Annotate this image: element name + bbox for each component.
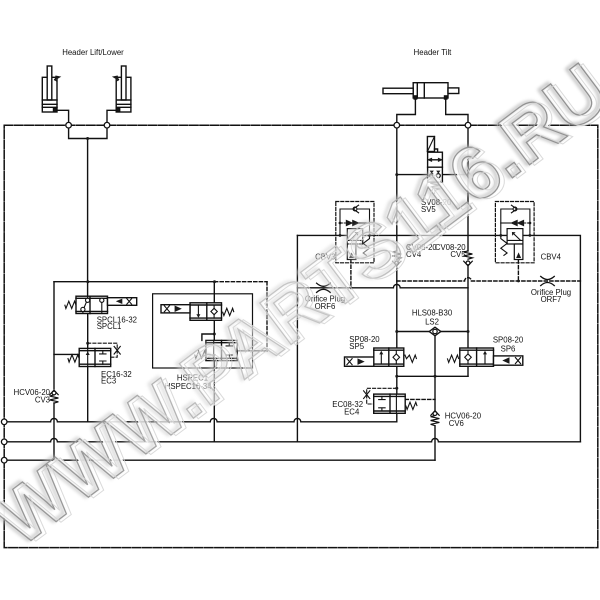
wire: CBV4 pilot line (dashed) with hop over B: [397, 278, 581, 281]
svg-text:EC4: EC4: [344, 407, 360, 416]
lift cylinder 2 (Header Lift/Lower right): [112, 66, 131, 112]
wire: branch at y=281.7 to CV3 column: [54, 281, 215, 283]
svg-text:ORF7: ORF7: [541, 295, 562, 304]
wire: SV5 left port: [397, 174, 428, 176]
wire: SPCL1 bottom to EC3 top: [87, 314, 89, 349]
wire: CBV3 pilot line (solid) with hop over A: [297, 284, 468, 287]
wire: SV5 right port: [442, 174, 468, 176]
node P1 (lift port): [66, 122, 72, 128]
wire: dashed pilot segment y=281.7: [215, 281, 268, 283]
wire: CV3 column down: [53, 282, 55, 389]
manifold block (right solid box): [297, 235, 580, 441]
pilot check SPCL1 (SPCL16-32): [65, 296, 137, 313]
counterbalance valve CBV3: [336, 202, 374, 263]
wire: CBV4 pilot drop (dashed): [517, 260, 519, 281]
wire: pilot branch into HSPEC1: [213, 282, 215, 303]
wire: work line B below CV5: [467, 267, 469, 348]
prop relief valve EC4 (EC08-32): [364, 388, 417, 413]
node P3 (tilt rod port): [394, 122, 400, 128]
wire: lift cylinder 2 port to node P2: [107, 110, 120, 122]
wire: EC4 LS dashed link to CV6 column: [405, 398, 435, 400]
wire: drain line y=376.3: [397, 375, 468, 377]
orifice plug ORF7: [541, 276, 555, 285]
solenoid valve SV5 (SV08-20): [427, 137, 443, 193]
wire: bus line 2 with hops: [4, 438, 580, 441]
svg-text:Header Lift/Lower: Header Lift/Lower: [62, 48, 124, 57]
node P4 (tilt cap port): [465, 122, 471, 128]
wire: lift main drop to SPCL1: [87, 139, 89, 297]
check valve CV5 (CV08-20): [464, 251, 473, 266]
wire: CV6 to bus3 riser: [434, 426, 436, 460]
tilt cylinder (Header Tilt): [383, 83, 459, 99]
svg-text:SP08-20: SP08-20: [493, 336, 524, 345]
check valve CV6 (HCV06-20): [431, 411, 440, 426]
wire: EC3 bottom to bus1: [87, 367, 89, 422]
wire: dashed riser x=267: [266, 282, 268, 351]
prop relief valve EC3 (EC16-32): [68, 343, 120, 366]
wire: work line B below SP6: [467, 367, 469, 376]
wire: bus line 3: [4, 459, 435, 461]
solenoid valve SP6 (SP08-20): [448, 348, 523, 366]
wire: LS2 down to CV6: [434, 336, 436, 411]
wire: LS shuttle line A to diamond: [397, 331, 430, 333]
wire: bus line 1 with hops: [4, 418, 397, 421]
svg-text:SP5: SP5: [349, 342, 364, 351]
wire: work line B vertical: [467, 128, 469, 251]
wire: HSPEC1 lower valve right port: [237, 350, 267, 352]
wire: HSPEC1 mid link: [213, 320, 215, 340]
node T1 (bus port 1): [1, 419, 7, 425]
svg-text:SPCL1: SPCL1: [97, 322, 122, 331]
sequence valve assembly HSPEC1 (HSPEC16-34): [153, 294, 253, 368]
wire: CBV3 pilot drop (dashed): [350, 260, 352, 288]
wire: work line A below EC4 to bus1: [396, 413, 398, 422]
wire: tilt cylinder cap-end port to node P4: [446, 99, 468, 122]
check valve CV4 (CV08-20): [392, 251, 401, 266]
lift cylinder 1 (Header Lift/Lower left): [42, 66, 61, 112]
node T2 (bus port 2): [1, 439, 7, 445]
wire: work line A vertical: [396, 128, 398, 251]
wire: CV3 to bus lines: [53, 403, 55, 460]
svg-text:CV3: CV3: [35, 395, 50, 404]
counterbalance valve CBV4: [495, 202, 534, 263]
solenoid valve SP5 (SP08-20): [345, 348, 417, 366]
shuttle valve LS2 (HLS08-B30): [429, 327, 441, 336]
svg-text:EC3: EC3: [101, 377, 116, 386]
svg-text:LS2: LS2: [425, 318, 439, 327]
orifice plug ORF6: [317, 283, 331, 292]
check valve CV3 (HCV06-20): [50, 390, 59, 403]
wire: tilt cylinder rod-end port to node P3: [397, 99, 416, 122]
node T3 (bus port 3): [1, 457, 7, 463]
svg-text:CBV4: CBV4: [541, 253, 562, 262]
wire: work line A below SP5: [396, 366, 398, 394]
svg-text:HLS08-B30: HLS08-B30: [412, 309, 453, 318]
wire: EC3 left port: [54, 353, 79, 355]
wire: work line A below CV4: [396, 267, 398, 349]
svg-text:SP6: SP6: [501, 345, 516, 354]
wire: LS shuttle diamond to line B: [441, 331, 468, 333]
wire: lift cylinder 1 port to node P1: [56, 110, 68, 122]
wire: lift supply Y-merge below ports: [69, 128, 107, 139]
node P2 (lift port): [104, 122, 110, 128]
machine boundary (outer dashed enclosure): [4, 125, 598, 547]
svg-text:Header Tilt: Header Tilt: [414, 48, 453, 57]
svg-text:CV6: CV6: [449, 419, 464, 428]
svg-text:CV5: CV5: [450, 250, 466, 259]
wire: HSPEC1 bottom to bus2: [213, 361, 215, 442]
wire: HSPEC1 elbow to lower valve pilot end: [202, 334, 214, 340]
